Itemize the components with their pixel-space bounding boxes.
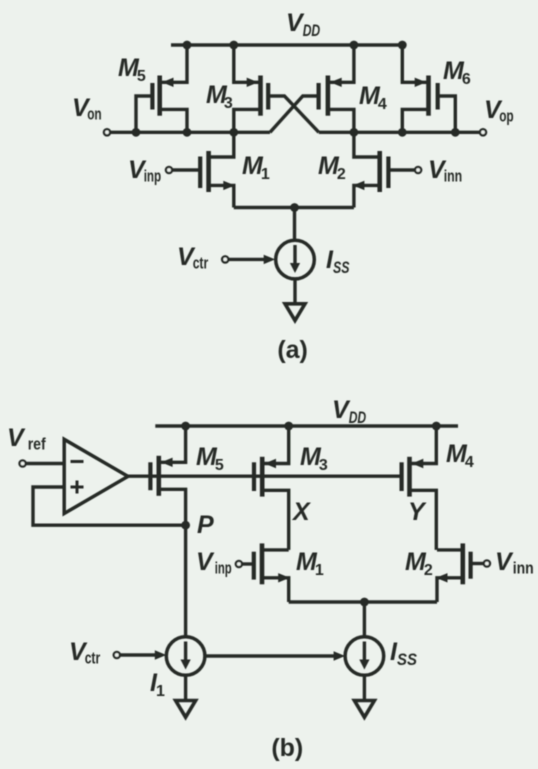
current source ISS (b)	[345, 637, 384, 676]
wire Vref to op-amp (b)	[26, 462, 64, 465]
node Vop/M4-drain/M2-drain junction (a)	[350, 128, 359, 137]
terminal Vinp (b)	[236, 561, 242, 567]
wire M4 gate to Von cross-coupling (a)	[270, 96, 319, 132]
node VDD/M4 junction (a)	[350, 41, 359, 50]
node tail junction (b)	[360, 598, 369, 607]
node VDD/M6 junction (a)	[398, 41, 407, 50]
node Von/M5-gate junction (a)	[132, 128, 141, 137]
transistor M3 (a)	[234, 45, 268, 132]
node P junction (b)	[181, 521, 190, 530]
svg-text:P: P	[197, 511, 214, 539]
terminal Vctr (a)	[222, 256, 228, 262]
ground (a)	[285, 304, 305, 321]
terminal Vinp (a)	[166, 167, 172, 173]
wire tail to current source (a)	[293, 208, 296, 241]
wire VDD rail (b)	[155, 424, 458, 427]
svg-text:Y: Y	[408, 498, 427, 526]
transistor M6 (a)	[402, 45, 455, 132]
transistor M4 (a)	[319, 45, 354, 132]
terminal Von (a)	[104, 129, 110, 135]
wire tail to ISS (b)	[363, 602, 366, 637]
wire feedback from + input to node P (b)	[33, 487, 186, 525]
op-amp U1 (b)	[64, 439, 128, 513]
node Vop/M6-drain junction (a)	[398, 128, 407, 137]
terminal Vctr (b)	[114, 652, 120, 658]
svg-text:(a): (a)	[277, 336, 308, 364]
svg-text:X: X	[291, 498, 311, 526]
transistor M4 (b)	[402, 426, 437, 550]
transistor M5 (a)	[136, 45, 187, 132]
transistor M1 (a)	[172, 132, 235, 207]
transistor M3 (b)	[254, 426, 289, 550]
wire op-amp output / gate line (b)	[128, 475, 402, 478]
node Von/M5-drain junction (a)	[183, 128, 192, 137]
node Von/M3-drain/M1-drain junction (a)	[229, 128, 238, 137]
wire node P down to I1 (b)	[184, 525, 187, 637]
node Vop/M6-gate junction (a)	[451, 128, 460, 137]
wire current source to ground (a)	[293, 279, 296, 303]
transistor M5 (b)	[150, 426, 185, 525]
svg-text:(b): (b)	[271, 734, 303, 762]
wire I1 to ground (b)	[184, 675, 187, 700]
wire Vop output rail (a)	[319, 131, 480, 134]
node VDD/M3 junction (b)	[284, 422, 293, 431]
node VDD/M5 junction (a)	[183, 41, 192, 50]
terminal Vop (a)	[480, 129, 486, 135]
wire tail rail (b)	[289, 600, 437, 603]
transistor M1 (b)	[242, 543, 290, 602]
wire Vctr arrow to I1 (b)	[120, 650, 166, 659]
terminal Vinn (a)	[415, 167, 421, 173]
wire M3 gate to Vop cross-coupling (a)	[268, 96, 319, 132]
wire ISS to ground (b)	[363, 675, 366, 700]
current source I1 (b)	[166, 637, 205, 676]
terminal Vinn (b)	[484, 560, 490, 566]
transistor M2 (a)	[353, 132, 415, 207]
node tail junction (a)	[290, 203, 299, 212]
node VDD/M3 junction (a)	[229, 41, 238, 50]
wire tail rail (a)	[234, 206, 354, 209]
wire I1 to ISS with arrow (b)	[205, 651, 345, 660]
node VDD/M4 junction (b)	[432, 422, 441, 431]
ground below I1 (b)	[176, 701, 196, 718]
wire Vctr arrow to ISS (a)	[228, 255, 275, 264]
wire VDD rail (a)	[171, 43, 406, 46]
current source ISS (a)	[276, 240, 315, 279]
transistor M2 (b)	[436, 543, 484, 602]
terminal Vref (b)	[20, 460, 26, 466]
ground below ISS (b)	[354, 701, 374, 718]
wire Von output rail (a)	[110, 131, 270, 134]
node VDD/M5 junction (b)	[181, 422, 190, 431]
